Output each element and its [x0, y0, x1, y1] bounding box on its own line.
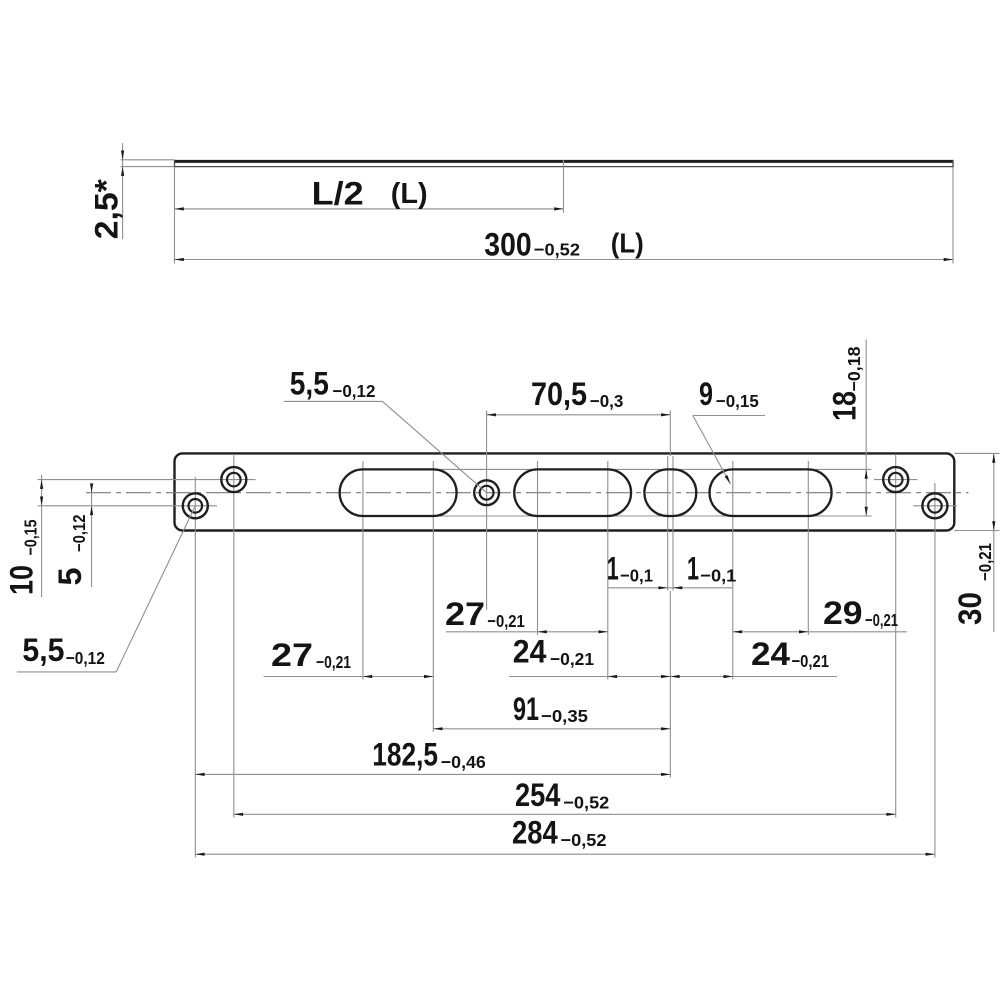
svg-text:−0,12: −0,12	[69, 514, 89, 552]
svg-text:182,5: 182,5	[372, 737, 438, 773]
svg-text:(L): (L)	[391, 178, 428, 210]
svg-text:(L): (L)	[611, 228, 644, 259]
svg-text:−0,21: −0,21	[975, 543, 995, 581]
svg-text:−0,21: −0,21	[487, 611, 525, 631]
svg-text:−0,46: −0,46	[441, 752, 486, 772]
svg-text:24: 24	[513, 634, 547, 670]
svg-text:L/2: L/2	[312, 176, 364, 212]
svg-text:254: 254	[515, 777, 561, 813]
svg-text:−0,21: −0,21	[792, 651, 830, 671]
svg-text:−0,12: −0,12	[332, 381, 375, 401]
svg-text:−0,15: −0,15	[20, 519, 40, 555]
svg-text:5,5: 5,5	[290, 366, 329, 402]
svg-text:5,5: 5,5	[22, 632, 64, 668]
svg-text:18: 18	[827, 391, 863, 421]
svg-text:10: 10	[4, 565, 40, 595]
svg-text:1: 1	[687, 551, 699, 587]
svg-text:27: 27	[271, 637, 313, 673]
svg-text:−0,12: −0,12	[66, 648, 105, 668]
svg-text:−0,1: −0,1	[620, 566, 653, 586]
svg-text:284: 284	[512, 815, 558, 851]
svg-text:2,5*: 2,5*	[89, 179, 125, 240]
svg-text:27: 27	[445, 596, 485, 632]
svg-text:−0,21: −0,21	[316, 652, 351, 672]
svg-text:91: 91	[513, 691, 539, 727]
svg-text:1: 1	[607, 551, 619, 587]
svg-text:−0,52: −0,52	[534, 240, 580, 260]
svg-text:−0,52: −0,52	[563, 793, 609, 813]
svg-text:−0,15: −0,15	[716, 391, 759, 411]
svg-text:29: 29	[823, 595, 863, 631]
svg-text:−0,21: −0,21	[550, 649, 594, 669]
svg-text:−0,21: −0,21	[865, 610, 898, 630]
svg-text:70,5: 70,5	[531, 376, 587, 412]
svg-text:24: 24	[751, 636, 790, 672]
svg-text:−0,35: −0,35	[541, 706, 588, 726]
svg-text:−0,18: −0,18	[844, 346, 864, 391]
svg-text:−0,1: −0,1	[700, 566, 736, 586]
svg-text:−0,52: −0,52	[561, 830, 607, 850]
svg-text:9: 9	[699, 376, 713, 412]
svg-text:300: 300	[484, 227, 531, 263]
svg-text:30: 30	[952, 592, 988, 625]
svg-text:5: 5	[52, 568, 88, 586]
svg-text:−0,3: −0,3	[590, 391, 624, 411]
